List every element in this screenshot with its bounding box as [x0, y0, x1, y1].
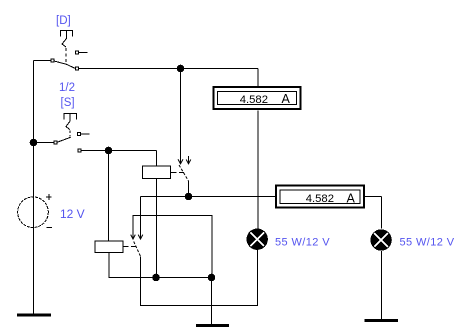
junction: coil bus node 2 (to ground): [208, 274, 216, 282]
wire: rail to [S] common: [34, 142, 55, 144]
mechanical link K2: [123, 246, 136, 248]
svg-text:4.582: 4.582: [306, 193, 334, 205]
wire: node to meter A2 (and to K2 upper contact): [141, 196, 277, 198]
wire: branch down to relay K2 coil: [108, 151, 110, 241]
contact: [D] throw lower: [76, 67, 79, 70]
junction: top bus node: [177, 65, 185, 73]
contact: [S] common: [54, 141, 57, 144]
label [D]: [56, 15, 71, 27]
ground (battery): [17, 314, 51, 317]
svg-text:[S]: [S]: [61, 97, 75, 109]
junction: K1 output node: [185, 193, 193, 201]
wire: node to ground: [211, 278, 213, 325]
wire: lamp L2 to ground: [381, 251, 383, 319]
battery V1: [18, 194, 52, 228]
junction: coil bus node 1: [152, 274, 160, 282]
switch blade [S]: [57, 137, 71, 142]
contact: [D] common: [51, 59, 54, 62]
svg-text:55 W/12 V: 55 W/12 V: [275, 237, 330, 249]
relay K1 contact blade: [179, 165, 189, 181]
ground (relay/lamp bus): [196, 324, 229, 327]
contact: [D] throw upper (stub): [76, 51, 88, 54]
contact: [S] throw lower: [78, 149, 81, 152]
wire: K2 coil bottom to common bus: [109, 253, 212, 278]
wire: meter A2 to lamp L2: [364, 197, 382, 229]
junction: coil branch node: [105, 147, 113, 155]
wire: rail to [D] common: [34, 60, 52, 62]
wire: K2 left contact loop (inner box): [131, 216, 212, 278]
ammeter A2: [276, 186, 364, 208]
value label: 12 V: [60, 207, 85, 221]
label [S]: [61, 97, 75, 109]
actuation arrow K1: [186, 156, 191, 164]
wire: lamp L1 return to relay K2 contact: [141, 250, 258, 306]
pushbutton actuator [D]: [61, 31, 73, 64]
mechanical link K1: [171, 172, 184, 174]
value label: lamp L1 55 W/12 V: [275, 237, 330, 249]
wire: K1 contact output: [188, 181, 190, 197]
wire: drop to relay K1 contact: [178, 69, 183, 164]
label 1/2: [59, 82, 75, 94]
svg-text:1/2: 1/2: [59, 82, 75, 94]
svg-text:A: A: [347, 191, 356, 205]
ground (lamp L2): [365, 319, 399, 322]
wire: left rail (battery column): [33, 61, 35, 315]
wire: [S] to relay coils: [81, 151, 157, 167]
value label: lamp L2 55 W/12 V: [400, 236, 455, 248]
svg-text:4.582: 4.582: [240, 94, 268, 106]
pushbutton actuator [S]: [64, 114, 77, 137]
wire: drop to relay K2 contact (right arrow): [138, 197, 143, 240]
relay K2 coil: [95, 241, 123, 253]
relay K1 coil: [143, 166, 171, 179]
lamp L2 55W/12V: [370, 229, 391, 250]
contact: [S] throw upper (stub): [78, 133, 90, 136]
svg-text:A: A: [282, 92, 291, 106]
lamp L1 55W/12V: [247, 229, 268, 250]
wire: K1 coil bottom lead: [156, 179, 158, 278]
svg-text:[D]: [D]: [56, 15, 71, 27]
junction: rail to [S]: [30, 139, 38, 147]
switch blade [D]: [54, 61, 75, 68]
ammeter A1: [214, 87, 301, 109]
svg-text:55 W/12 V: 55 W/12 V: [400, 236, 455, 248]
relay K2 contact blade: [134, 242, 141, 257]
wire: meter A1 to lamp L1: [257, 111, 259, 229]
svg-text:12 V: 12 V: [60, 207, 85, 221]
wire: [D] to meter A1 (top bus): [79, 69, 259, 87]
